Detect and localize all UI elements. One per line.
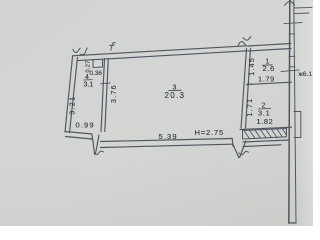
right wall pilaster rect bbox=[294, 112, 301, 138]
svg-text:0.99: 0.99 bbox=[76, 121, 95, 130]
svg-text:1.79: 1.79 bbox=[258, 75, 275, 84]
right wall bottom cap bbox=[289, 222, 296, 224]
svg-text:ж6.1: ж6.1 bbox=[299, 71, 313, 78]
wall: main room bottom wall (double line) bbox=[101, 139, 233, 148]
wall end cap near break bbox=[231, 139, 234, 147]
wall: room1 top wall (double line) bbox=[248, 44, 291, 52]
wall: room2 bottom line bbox=[240, 127, 292, 129]
leader line to ж6 bbox=[281, 70, 299, 72]
svg-text:3.76: 3.76 bbox=[111, 84, 118, 103]
room 1 fraction bar bbox=[262, 64, 273, 67]
svg-text:20.3: 20.3 bbox=[165, 91, 186, 100]
wall: lower wall under hatch block (double line) bbox=[243, 140, 289, 147]
right wall ladder ticks bbox=[284, 7, 312, 67]
wall: divider between room1 and room2 bbox=[247, 82, 292, 84]
svg-text:1.71: 1.71 bbox=[247, 98, 254, 117]
svg-text:0.36: 0.36 bbox=[90, 70, 103, 77]
break squiggle left bbox=[94, 151, 103, 154]
break squiggle bottom bbox=[239, 151, 249, 154]
wall break hook: main top wall left end bbox=[110, 42, 116, 50]
hatch strokes bbox=[244, 129, 287, 139]
room 2 fraction bar bbox=[258, 108, 271, 111]
wall break: funnel below left room bbox=[92, 135, 99, 155]
wall: apartment top wall (double line) bbox=[73, 46, 248, 61]
svg-text:3.21: 3.21 bbox=[68, 96, 77, 115]
wall: left outer wall (double line) bbox=[65, 57, 78, 133]
closet 0.36 outline bbox=[93, 60, 103, 68]
svg-text:1.45: 1.45 bbox=[249, 57, 256, 76]
hatch block outline bbox=[243, 129, 287, 140]
wall: rooms 1-2 left wall (double line) bbox=[241, 49, 251, 129]
wall: partition between room4 and main room (double line) bbox=[101, 59, 108, 132]
wall: right outer wall (double line) bbox=[289, 0, 290, 223]
tick: 3.76 dimension tick bbox=[101, 82, 111, 85]
svg-text:3.1: 3.1 bbox=[84, 82, 94, 89]
wall break bird: right wall top bbox=[285, 0, 295, 5]
svg-text:2.6: 2.6 bbox=[263, 64, 275, 73]
wall break bird: top-left bbox=[73, 48, 87, 55]
svg-text:5.39: 5.39 bbox=[159, 132, 178, 141]
room 3 fraction bar bbox=[169, 89, 182, 92]
svg-text:H=2.75: H=2.75 bbox=[195, 128, 225, 137]
wall break bird: top wall right end bbox=[238, 37, 251, 47]
wall: left room bottom wall (double line) bbox=[65, 132, 92, 140]
divider end ticks bbox=[248, 80, 290, 87]
wall break: V below bottom wall right bbox=[233, 141, 246, 158]
svg-text:1.82: 1.82 bbox=[257, 117, 274, 126]
room 4 fraction bar bbox=[84, 79, 93, 81]
